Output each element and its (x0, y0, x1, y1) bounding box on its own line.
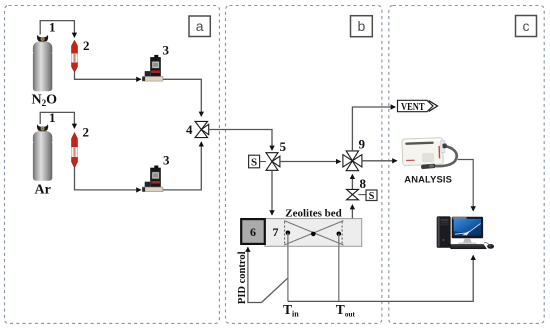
panel label c (516, 16, 537, 37)
thermocouple node Tout (337, 232, 342, 237)
wire valve 9 top to VENT (352, 107, 395, 151)
thermocouple node Tin (286, 231, 291, 236)
panel b dashed border (226, 6, 382, 324)
gas cylinder N2O (33, 35, 52, 92)
computer workstation (437, 217, 494, 249)
VENT flag (398, 100, 438, 113)
zeolites bed vessel (265, 219, 362, 247)
solenoid S box (valve 8) (359, 190, 378, 202)
wire zeolites bed to valve 8 (351, 205, 353, 219)
svg-text:7: 7 (273, 225, 279, 239)
wire Ar cylinder to filter 2 (40, 112, 74, 128)
svg-text:2: 2 (83, 38, 90, 53)
filter 2 (Ar) (72, 133, 78, 168)
wire MFC 3 to valve 4 top (163, 79, 201, 116)
svg-text:2: 2 (83, 125, 90, 140)
wire filter 2 to MFC 3 (Ar) (75, 168, 141, 190)
wire Tin down (287, 233, 289, 302)
svg-text:Zeolites bed: Zeolites bed (285, 208, 342, 220)
filter 2 (N2O) (72, 40, 78, 72)
wire N2O cylinder to filter 2 (40, 21, 74, 38)
wire valve 4 to valve 5 (209, 130, 272, 151)
PID diagonal wire to Tin line (262, 278, 288, 303)
svg-text:9: 9 (359, 137, 366, 152)
gas cylinder Ar (33, 124, 52, 181)
wire valve 8 to valve 9 (351, 175, 353, 190)
svg-text:VENT: VENT (401, 102, 425, 113)
PID control wire to box 6 (248, 247, 262, 302)
bed cross pattern (284, 221, 343, 245)
wire Tout down (338, 234, 340, 302)
MFC 3 (Ar) (142, 166, 163, 192)
MFC 3 (N2O) (142, 55, 163, 81)
bed boundary dashed line right (341, 222, 343, 245)
solenoid S box (valve 5) (249, 155, 266, 168)
bed boundary dashed line left (284, 222, 286, 245)
svg-text:3: 3 (163, 153, 170, 168)
svg-text:1: 1 (49, 20, 56, 35)
svg-text:3: 3 (163, 43, 170, 58)
svg-text:S: S (369, 191, 375, 202)
wire filter 2 to MFC 3 (75, 72, 141, 79)
svg-text:6: 6 (250, 225, 256, 239)
svg-text:5: 5 (280, 139, 287, 154)
svg-text:c: c (523, 18, 530, 34)
panel c dashed border (389, 6, 544, 324)
svg-text:4: 4 (186, 122, 193, 137)
wire MFC 3 to valve 4 bottom (163, 142, 201, 190)
signal bus to computer (288, 256, 473, 302)
svg-text:Ar: Ar (35, 183, 51, 198)
svg-text:PID control: PID control (237, 251, 248, 304)
bed center node (311, 232, 316, 237)
svg-text:a: a (196, 18, 204, 34)
valve 9 (4-way) (343, 151, 362, 171)
panel label b (351, 16, 373, 37)
wire analyzer to computer (458, 160, 473, 211)
svg-text:8: 8 (360, 176, 367, 191)
wire valve 5 down to zeolites bed (271, 170, 273, 215)
svg-text:b: b (358, 18, 366, 34)
panel a dashed border (5, 6, 220, 324)
svg-text:ANALYSIS: ANALYSIS (404, 174, 452, 185)
valve 8 (2-way) (347, 189, 359, 199)
svg-text:1: 1 (49, 110, 56, 125)
wire valve 9 right to analyzer (362, 160, 397, 162)
valve 5 (3-way) (266, 153, 280, 171)
wire valve 5 to valve 9 (280, 161, 341, 163)
gas analyzer (402, 138, 457, 170)
svg-text:S: S (251, 157, 257, 169)
valve 4 (3-way) (195, 121, 209, 137)
panel label a (189, 16, 210, 37)
heater box 6 (241, 219, 265, 244)
